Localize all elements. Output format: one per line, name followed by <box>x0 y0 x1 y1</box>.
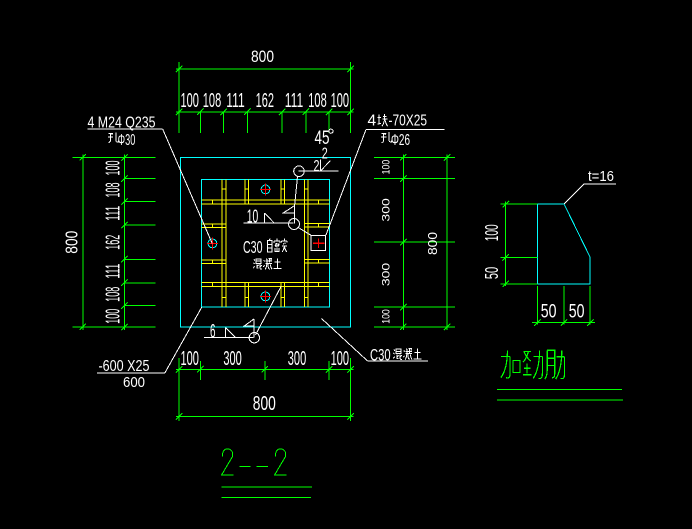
svg-text:-600 X25: -600 X25 <box>99 358 150 375</box>
dimension left ticks <box>80 154 128 330</box>
dimension bottom labels <box>181 348 349 415</box>
svg-text:100: 100 <box>181 90 199 112</box>
svg-text:800: 800 <box>253 393 276 415</box>
title stiffener underline <box>497 389 623 400</box>
svg-text:-70X25: -70X25 <box>389 112 428 129</box>
dimension left labels <box>61 161 124 324</box>
dimension right labels <box>381 160 441 324</box>
svg-text:162: 162 <box>103 235 125 250</box>
weld symbol 10 fillet <box>244 205 312 235</box>
svg-text:Φ30: Φ30 <box>118 132 136 149</box>
steel plate H1 (top horizontal double line) <box>202 200 330 204</box>
outer concrete square <box>181 157 351 327</box>
svg-text:800: 800 <box>426 232 440 255</box>
steel plate V4 (right vertical double line) <box>305 180 309 307</box>
label hole dia 30 <box>108 132 135 149</box>
svg-text:50: 50 <box>541 301 557 322</box>
stiffener rib outline <box>537 204 590 284</box>
label 4 M24 Q235 with leader <box>88 114 213 243</box>
svg-text:100: 100 <box>103 309 125 324</box>
tie bars top row <box>222 188 308 190</box>
svg-text:2: 2 <box>314 158 320 175</box>
dimension top labels <box>181 47 349 112</box>
svg-text:600: 600 <box>123 374 145 391</box>
steel plate H3 (bottom horizontal double line) <box>202 282 330 286</box>
stub plate V2 bottom <box>245 282 249 307</box>
svg-text:2: 2 <box>322 146 328 163</box>
stub plate V2 top <box>245 180 249 205</box>
svg-text:111: 111 <box>103 264 125 279</box>
svg-text:C30: C30 <box>370 345 391 364</box>
bolt marker bottom <box>260 291 271 303</box>
tie bars right column <box>318 200 320 286</box>
stiffener bottom dimension <box>532 286 595 326</box>
bolt marker top <box>260 184 271 196</box>
weld symbol 6 fillet with flag <box>204 286 281 343</box>
dimension top overall 800 line <box>176 62 354 133</box>
title stiffener rib (Chinese) <box>501 350 565 379</box>
bolt marker left <box>207 238 218 250</box>
stub plate V3 top <box>281 180 285 205</box>
stub plate V3 bottom <box>281 282 285 307</box>
stub plate right lower <box>305 259 330 263</box>
svg-text:111: 111 <box>285 90 303 112</box>
label hole dia 26 <box>381 132 410 149</box>
stub plate right upper <box>305 224 330 227</box>
svg-text:50: 50 <box>482 267 502 279</box>
weld symbol 45deg bevel <box>294 128 339 206</box>
svg-text:50: 50 <box>569 301 585 322</box>
svg-text:100: 100 <box>331 348 349 370</box>
inner steel plate square -600x25 <box>202 180 330 307</box>
svg-text:100: 100 <box>381 309 393 324</box>
label -600 X25 with leader <box>97 307 202 391</box>
svg-text:C30: C30 <box>243 237 263 257</box>
svg-text:100: 100 <box>181 348 199 370</box>
stub plate left upper <box>202 224 226 227</box>
stiffener dimension labels <box>482 224 584 322</box>
svg-text:6: 6 <box>210 322 216 343</box>
svg-text:111: 111 <box>103 206 125 221</box>
svg-text:100: 100 <box>381 160 393 175</box>
svg-text:100: 100 <box>103 161 125 176</box>
svg-text:4: 4 <box>368 112 377 129</box>
pad marker right (white square with red cross) <box>311 235 326 250</box>
svg-text:t=16: t=16 <box>588 169 614 185</box>
title section mark 2-2 <box>222 449 287 475</box>
tie bars bottom row <box>222 296 308 298</box>
dimension right ticks <box>400 154 450 330</box>
svg-text:108: 108 <box>308 90 326 112</box>
svg-text:100: 100 <box>331 90 349 112</box>
svg-text:108: 108 <box>103 287 125 302</box>
label C30 concrete with leader <box>322 319 428 365</box>
svg-text:108: 108 <box>203 90 221 112</box>
svg-text:300: 300 <box>381 263 393 286</box>
stub plate left lower <box>202 260 226 264</box>
tie bars left column <box>211 200 213 286</box>
svg-text:800: 800 <box>61 230 81 253</box>
dimension left overall 800 line <box>73 154 156 330</box>
svg-text:111: 111 <box>226 90 244 112</box>
center text C30 self-compacting concrete <box>243 237 287 269</box>
svg-text:800: 800 <box>251 47 274 66</box>
label 4 pcs -70X25 with leader <box>326 112 445 234</box>
dimension bottom ticks <box>176 366 354 420</box>
svg-text:Φ26: Φ26 <box>391 132 410 149</box>
svg-text:100: 100 <box>482 224 502 241</box>
dimension right chain line <box>374 154 455 330</box>
svg-text:300: 300 <box>381 198 393 221</box>
dimension bottom overall 800 line <box>176 415 354 417</box>
dimension bottom chain line <box>176 358 354 421</box>
steel plate V1 (left vertical double line) <box>222 180 226 307</box>
dimension right overall 800 line <box>446 154 448 330</box>
dimension left chain line <box>124 154 155 330</box>
dimension top ticks <box>176 66 354 115</box>
svg-text:108: 108 <box>103 183 125 198</box>
svg-text:300: 300 <box>223 348 241 370</box>
label t=16 with leader <box>564 169 616 204</box>
svg-text:300: 300 <box>288 348 306 370</box>
svg-text:162: 162 <box>256 90 274 112</box>
title section mark underline <box>221 487 312 498</box>
stiffener left dimension <box>501 201 538 287</box>
dimension top chain line <box>176 112 354 133</box>
